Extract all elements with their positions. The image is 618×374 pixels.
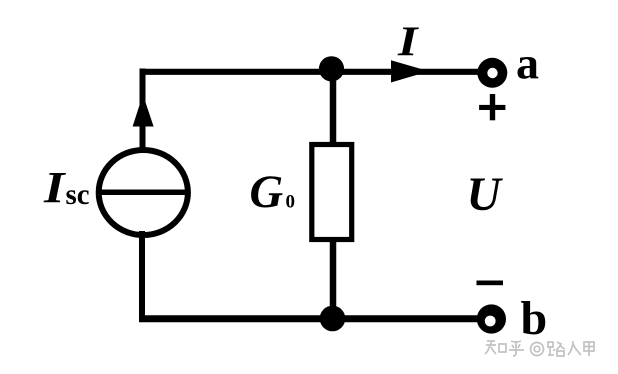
polarity: minus sign near terminal b	[477, 281, 504, 286]
wire: left vertical upper segment (corner down to current source)	[140, 69, 146, 151]
node: bottom junction dot	[320, 306, 346, 332]
terminal b: inner hole	[485, 316, 496, 327]
arrowhead of branch current I on top wire (pointing right)	[391, 60, 429, 82]
node: top junction dot	[319, 56, 344, 81]
svg-text:G: G	[250, 167, 284, 218]
svg-text:a: a	[516, 38, 539, 89]
terminal a: inner hole	[487, 68, 497, 78]
current source U1: circle symbol	[99, 150, 188, 235]
wire: left vertical lower segment (current source to bottom corner)	[139, 231, 145, 322]
wire: bottom horizontal from left corner to terminal b	[139, 315, 478, 322]
watermark char: jia (甲)	[584, 342, 594, 356]
watermark: Zhihu @luренjia (drawn strokes, light gray)	[485, 341, 594, 356]
watermark char: hu (乎)	[509, 341, 524, 356]
svg-text:b: b	[521, 292, 548, 345]
svg-text:sc: sc	[66, 178, 90, 211]
watermark char: ren (人)	[568, 341, 581, 355]
svg-text:U: U	[467, 169, 504, 221]
wire: top horizontal from left corner to terminal a	[140, 69, 480, 75]
conductance G0: rectangle body	[312, 145, 352, 240]
svg-text:I: I	[397, 19, 419, 66]
watermark char: lu (路)	[548, 342, 565, 356]
watermark char: @	[531, 343, 544, 356]
watermark char: zhi (知)	[485, 341, 506, 354]
terminal b: outer ring	[477, 304, 506, 333]
current source U1: horizontal diameter bar	[97, 189, 190, 195]
terminal a: outer ring	[477, 58, 507, 88]
polarity: plus sign near terminal a	[479, 94, 505, 120]
wire: middle branch lower (conductance box to bottom node)	[330, 240, 337, 319]
svg-text:0: 0	[286, 192, 296, 213]
wire: middle branch upper (top node to conductance box)	[330, 68, 337, 146]
svg-text:I: I	[43, 163, 67, 212]
arrowhead of current source direction (pointing up)	[133, 95, 154, 127]
